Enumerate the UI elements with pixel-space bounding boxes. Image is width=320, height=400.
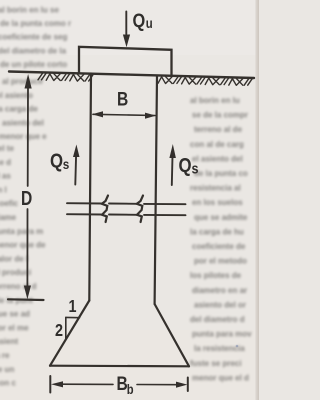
svg-text:la re: la re bbox=[0, 351, 10, 360]
dimension B arrow line bbox=[93, 114, 155, 115]
svg-text:al borin en lu: al borin en lu bbox=[190, 96, 240, 105]
svg-text:de un pilote corto: de un pilote corto bbox=[0, 60, 67, 69]
shaft break line lower bbox=[67, 213, 102, 215]
svg-text:del diametro de la: del diametro de la bbox=[0, 46, 67, 55]
dimension Bb end tick left bbox=[49, 376, 51, 393]
svg-text:con c: con c bbox=[0, 379, 16, 388]
label Qs right bbox=[179, 153, 199, 176]
svg-text:de la punta como r: de la punta como r bbox=[0, 19, 71, 28]
svg-text:terreno al de: terreno al de bbox=[194, 125, 243, 134]
ground hatching right bbox=[158, 77, 252, 86]
ground line bbox=[9, 72, 254, 79]
svg-text:de la punta co: de la punta co bbox=[194, 169, 248, 178]
shaft break line upper bbox=[67, 202, 102, 204]
skin friction arrow right Qs bbox=[171, 156, 174, 185]
svg-text:coeficiente de seg: coeficiente de seg bbox=[0, 33, 67, 42]
label Qs left bbox=[50, 149, 69, 172]
svg-text:1: 1 bbox=[69, 297, 77, 317]
svg-text:resistencia al: resistencia al bbox=[190, 184, 241, 193]
shaft left wall bbox=[89, 74, 91, 301]
svg-text:por el metodo: por el metodo bbox=[194, 257, 247, 266]
bell right slant bbox=[155, 304, 189, 366]
svg-text:Q: Q bbox=[50, 149, 63, 172]
label Qu bbox=[133, 10, 153, 32]
svg-text:Q: Q bbox=[133, 10, 146, 32]
svg-text:asiento del: asiento del bbox=[2, 118, 44, 127]
break zigzag left bbox=[102, 196, 108, 223]
break zigzag right bbox=[137, 196, 143, 223]
svg-text:Q: Q bbox=[179, 153, 192, 176]
svg-text:que se admite: que se admite bbox=[194, 213, 248, 222]
slope triangle horizontal bbox=[66, 316, 80, 318]
svg-text:b: b bbox=[127, 382, 134, 397]
svg-text:valor de l: valor de l bbox=[0, 254, 28, 263]
ink dot artifact bbox=[236, 345, 239, 348]
slope triangle vertical bbox=[65, 317, 67, 339]
svg-text:al borin en lu se: al borin en lu se bbox=[0, 6, 59, 15]
bell left slant bbox=[50, 301, 89, 366]
page edge shadow right bbox=[256, 0, 260, 400]
svg-text:el asiento del: el asiento del bbox=[192, 154, 243, 163]
svg-text:la carga de hu: la carga de hu bbox=[190, 227, 244, 236]
label Bb bbox=[117, 372, 134, 397]
bell bottom edge bbox=[50, 365, 189, 368]
svg-text:en los suelos: en los suelos bbox=[192, 198, 243, 207]
svg-text:menor que el d: menor que el d bbox=[192, 373, 249, 382]
svg-text:la carga de: la carga de bbox=[0, 105, 38, 114]
svg-text:u: u bbox=[146, 16, 153, 31]
svg-text:punta para mov: punta para mov bbox=[192, 330, 252, 339]
dimension Bb arrow line bbox=[62, 383, 113, 385]
svg-text:del diametro d: del diametro d bbox=[190, 315, 245, 324]
svg-text:el as: el as bbox=[0, 172, 11, 181]
skin friction arrow left Qs bbox=[74, 155, 77, 185]
svg-text:s: s bbox=[192, 159, 199, 176]
svg-text:la resistencia: la resistencia bbox=[194, 344, 245, 353]
svg-text:se d: se d bbox=[0, 158, 11, 167]
svg-text:los pilotes de: los pilotes de bbox=[190, 271, 242, 280]
svg-text:por el me: por el me bbox=[0, 323, 29, 332]
svg-text:coefic: coefic bbox=[0, 199, 19, 208]
dimension D arrow line bbox=[27, 86, 29, 186]
svg-text:fuste se preci: fuste se preci bbox=[190, 359, 242, 368]
svg-text:de un: de un bbox=[0, 365, 14, 374]
print bleed-through from reverse page bbox=[0, 6, 252, 388]
svg-text:al producir: al producir bbox=[2, 77, 43, 86]
pile cap bbox=[79, 47, 172, 76]
svg-text:en l: en l bbox=[0, 185, 7, 194]
tick at pile tip level bbox=[8, 298, 44, 301]
svg-text:diame: diame bbox=[0, 213, 17, 222]
svg-text:se de la compr: se de la compr bbox=[192, 111, 248, 120]
svg-text:menor que de: menor que de bbox=[0, 241, 46, 250]
svg-text:2: 2 bbox=[55, 321, 63, 341]
svg-text:menor que e: menor que e bbox=[0, 132, 47, 141]
svg-text:asiento del or: asiento del or bbox=[194, 300, 246, 309]
dimension Bb end tick right bbox=[187, 378, 189, 392]
svg-text:punta para m: punta para m bbox=[0, 227, 43, 236]
svg-text:coeficiente de: coeficiente de bbox=[192, 242, 246, 251]
svg-text:del te: del te bbox=[0, 144, 14, 153]
ground hatching left bbox=[38, 73, 93, 81]
svg-text:terreno al d: terreno al d bbox=[0, 282, 37, 291]
svg-text:D: D bbox=[21, 187, 32, 210]
svg-text:que se ad: que se ad bbox=[0, 310, 30, 319]
svg-text:s: s bbox=[63, 156, 70, 172]
load arrow Qu bbox=[125, 12, 127, 35]
svg-text:con al de carg: con al de carg bbox=[190, 140, 244, 149]
shaft right wall bbox=[155, 76, 157, 304]
svg-text:diametro en ar: diametro en ar bbox=[192, 286, 247, 295]
svg-text:asient: asient bbox=[0, 337, 18, 346]
svg-text:B: B bbox=[117, 88, 128, 110]
